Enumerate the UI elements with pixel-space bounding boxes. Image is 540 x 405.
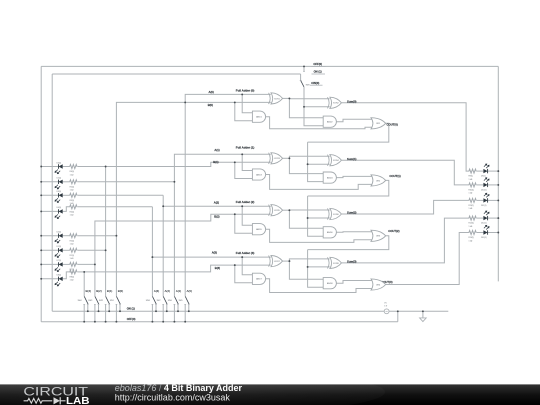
wire net A(2): bus up from SW7 to LED row corner; run right to Full Adder 2 [162, 195, 164, 296]
svg-text:AND3: AND3 [256, 173, 262, 176]
junction B(3) drop [234, 264, 236, 266]
and gate AND1 FA0 [252, 111, 265, 122]
svg-text:B(2): B(2) [96, 289, 102, 293]
LED D10 [483, 178, 489, 187]
svg-text:COUT(0): COUT(0) [387, 122, 398, 126]
wire indicator row D4/R4 from OFF rail [41, 207, 152, 212]
wire CIN(2) vertical to XOR6 and AND6 [308, 196, 324, 236]
junction XOR3 out [288, 157, 290, 159]
svg-text:1 kΩ: 1 kΩ [70, 174, 74, 176]
wire CIN(0) vertical to XOR2 and AND2 [304, 87, 323, 126]
wire AND3 output to OR2 [266, 175, 373, 190]
junction SW8 ON throw [155, 310, 157, 312]
svg-text:AND7: AND7 [256, 278, 262, 281]
wire output row R10/D10 [477, 184, 498, 186]
svg-text:1 kΩ: 1 kΩ [70, 258, 74, 260]
svg-text:SW8: SW8 [146, 300, 150, 302]
switch SW8 input A(3) [146, 289, 159, 322]
or gate OR1 FA0 [371, 118, 386, 129]
svg-text:R13(1): R13(1) [469, 237, 475, 239]
svg-text:XOR3: XOR3 [274, 158, 281, 160]
wire A(2) drop to AND [242, 206, 252, 225]
wire COUT(0) from OR1 to next CIN [308, 123, 389, 142]
svg-text:R4(1): R4(1) [70, 211, 75, 213]
ground [420, 311, 427, 321]
wire A(3) drop to AND [242, 257, 252, 275]
LED D3 [55, 193, 63, 202]
junction SW6 OFF throw [173, 321, 175, 323]
junction SW5 ON throw [188, 310, 190, 312]
junction B(0) row tap [115, 235, 117, 237]
svg-text:XOR5: XOR5 [274, 210, 281, 212]
svg-text:A(1): A(1) [176, 289, 182, 293]
wire Sum(2) from XOR6 to indicator [342, 200, 469, 214]
svg-text:SW6: SW6 [168, 300, 172, 302]
and gate AND7 FA3 [252, 273, 265, 284]
wire A(1) drop to AND [242, 154, 252, 170]
junction row D11 on right rail [497, 199, 499, 201]
and gate AND3 FA1 [252, 169, 265, 180]
or gate OR2 FA1 [371, 175, 386, 186]
junction row D1 on OFF rail [40, 249, 42, 251]
wire COUT(1) from OR2 to next CIN [308, 180, 389, 196]
LED D8 [55, 277, 63, 286]
wire CIN(1) vertical to XOR4 and AND4 [308, 142, 324, 182]
svg-text:R5(1): R5(1) [70, 240, 75, 242]
junction row D9 on right rail [497, 170, 499, 172]
svg-text:AND5: AND5 [256, 228, 262, 231]
svg-text:R9(1): R9(1) [469, 176, 474, 178]
junction SW7 OFF throw [162, 321, 164, 323]
and gate AND2 FA0 [323, 116, 336, 127]
junction CIN(3) to XOR8 [307, 266, 309, 268]
svg-text:ON (1): ON (1) [127, 307, 135, 311]
svg-text:SW4: SW4 [78, 300, 82, 302]
junction V1- / OFF riser [397, 310, 399, 312]
junction XOR7 out [288, 260, 290, 262]
switch SW6 input A(1) [168, 289, 181, 322]
LED D7 [55, 262, 63, 271]
wire net B(2): bus up from SW3, run right with jog to Full Adder 2 [95, 214, 271, 296]
resistor R13 1k [468, 231, 476, 235]
xor gate XOR5 FA2 [269, 205, 283, 216]
wire indicator row D2/R2 from OFF rail [41, 181, 174, 183]
wire Sum(3) from XOR8 to indicator [342, 218, 469, 263]
node OFF(0) top rail / left rail / bottom rail / right rail net [41, 66, 498, 321]
resistor R7 1k [69, 262, 77, 266]
junction SW1 OFF throw [115, 321, 117, 323]
junction row D5 on OFF rail [40, 235, 42, 237]
switch SW5 input A(0) [179, 289, 192, 322]
wire indicator row D5/R5 from OFF rail [41, 235, 116, 237]
resistor R8 1k [69, 270, 77, 274]
wire net B(0): bus up from SW1, corner, run right to Full Adder 0 [116, 102, 270, 296]
junction row D6 on OFF rail [40, 166, 42, 168]
xor gate XOR4 FA1 [328, 155, 342, 166]
wire AND4 output to OR2 [336, 176, 372, 177]
svg-text:AND1: AND1 [256, 116, 262, 119]
svg-text:R10(1): R10(1) [469, 190, 475, 192]
node ON(1) rail: top run, left inner rail, bottom run to V1 [52, 74, 384, 311]
xor gate XOR8 FA3 [328, 257, 342, 268]
xor gate XOR7 FA3 [269, 256, 283, 267]
junction row D8 on OFF rail [40, 278, 42, 280]
junction row D2 on OFF rail [40, 181, 42, 183]
LED D2 [55, 180, 63, 189]
svg-text:D7(1): D7(1) [57, 260, 62, 262]
junction SW7 ON throw [166, 310, 168, 312]
svg-text:B(1): B(1) [213, 160, 218, 164]
svg-text:AND8: AND8 [327, 282, 333, 285]
svg-text:D11(1): D11(1) [481, 205, 487, 207]
junction SW5 OFF throw [184, 321, 186, 323]
svg-text:D10(1): D10(1) [481, 190, 487, 192]
svg-text:AND4: AND4 [327, 177, 333, 180]
junction A(1) row tap [173, 181, 175, 183]
junction row D13 on right rail [497, 232, 499, 234]
junction XOR1 out [288, 97, 290, 99]
wire net B(3) run right with jog to Full Adder 3 [84, 265, 271, 272]
svg-text:AND6: AND6 [327, 231, 333, 234]
svg-text:1 kΩ: 1 kΩ [469, 240, 473, 242]
svg-text:COUT(2): COUT(2) [388, 229, 399, 233]
junction SW8 OFF throw [151, 321, 153, 323]
wire Sum(0) from XOR2 to indicator [342, 103, 469, 171]
svg-text:B(2): B(2) [214, 215, 219, 219]
junction XOR5 out [288, 209, 290, 211]
svg-text:Sum(2): Sum(2) [347, 211, 357, 215]
junction row D12 on right rail [497, 217, 499, 219]
wire CIN(3) vertical to XOR8 and AND8 [308, 250, 324, 288]
svg-text:D12(1): D12(1) [481, 223, 487, 225]
svg-text:A(2): A(2) [214, 200, 219, 204]
resistor R11 1k [468, 198, 476, 202]
xor gate XOR2 FA0 [328, 97, 342, 108]
svg-text:R3(1): R3(1) [70, 200, 75, 202]
junction SW6 ON throw [177, 310, 179, 312]
LED D6 [55, 164, 63, 173]
junction SW3 OFF throw [94, 321, 96, 323]
junction B(2) drop [234, 213, 236, 215]
svg-text:XOR1: XOR1 [274, 98, 281, 100]
svg-text:1 kΩ: 1 kΩ [70, 280, 74, 282]
wire B(3) drop to AND [235, 265, 253, 283]
xor gate XOR1 FA0 [269, 93, 283, 104]
svg-text:XOR4: XOR4 [333, 160, 340, 162]
switch SW1 input B(0) [110, 289, 123, 322]
wire AND5 output to OR3 [266, 229, 373, 242]
svg-text:CIN(0): CIN(0) [311, 81, 319, 85]
svg-text:D2(1): D2(1) [57, 178, 62, 180]
svg-text:D4(1): D4(1) [57, 207, 62, 209]
svg-text:OFF(0): OFF(0) [313, 62, 322, 66]
wire output row R11/D11 [477, 199, 498, 201]
svg-text:1 kΩ: 1 kΩ [70, 190, 74, 192]
svg-text:A(2): A(2) [165, 289, 171, 293]
LED D9 [483, 164, 489, 173]
switch SW3 input B(2) [88, 289, 101, 322]
svg-text:SW7: SW7 [157, 300, 161, 302]
svg-text:Sum(1): Sum(1) [347, 157, 357, 161]
wire output row R13/D13 [477, 232, 498, 234]
and gate AND8 FA3 [323, 278, 336, 289]
svg-text:R2(1): R2(1) [70, 186, 75, 188]
svg-text:R12(1): R12(1) [469, 223, 475, 225]
svg-text:A(3): A(3) [154, 289, 160, 293]
svg-text:SW9: SW9 [306, 85, 310, 87]
LED D5 [55, 234, 63, 243]
junction B(1) row tap [105, 249, 107, 251]
wire B(2) drop to AND [235, 214, 253, 233]
junction at A(0)/B(0) crossing [184, 101, 186, 103]
wire output row R9/D9 [477, 170, 498, 172]
junction SW2 OFF throw [105, 321, 107, 323]
xor gate XOR3 FA1 [269, 153, 283, 164]
svg-text:D8(1): D8(1) [57, 275, 62, 277]
wire indicator row D7/R7 from OFF rail [41, 263, 95, 265]
junction A(2) run tap [162, 205, 164, 207]
junction B(1) row tap top [105, 166, 107, 168]
junction row D4 on OFF rail [40, 210, 42, 212]
svg-text:Sum(3): Sum(3) [347, 260, 357, 264]
svg-text:XOR7: XOR7 [274, 261, 281, 263]
wire net A(1): bus up from SW6, corner, run right to Full Adder 1 [174, 154, 270, 296]
LED D12 [483, 211, 489, 220]
junction SW3 ON throw [98, 310, 100, 312]
voltage source V1 5V [384, 303, 389, 314]
svg-text:R1(1): R1(1) [70, 255, 75, 257]
svg-text:XOR2: XOR2 [333, 103, 340, 105]
wire net B(1): bus up from SW2 to LED row / run right with jog to Full Adder 1 [106, 162, 271, 296]
svg-text:D1(1): D1(1) [57, 246, 62, 248]
and gate AND4 FA1 [323, 172, 336, 183]
svg-text:B(0): B(0) [208, 103, 213, 107]
wire XOR3 output to XOR4 and AND4 [283, 157, 290, 159]
wire AND6 output to OR3 [336, 231, 372, 234]
wire XOR7 output to XOR8 and AND8 [283, 260, 290, 262]
LED D1 [55, 248, 63, 257]
svg-text:SW2: SW2 [99, 300, 103, 302]
wire net B(3): bus up from SW4 to indicator row [83, 272, 85, 296]
svg-text:OFF(0): OFF(0) [127, 317, 136, 321]
junction SW4 OFF throw [83, 321, 85, 323]
svg-text:D3(1): D3(1) [57, 191, 62, 193]
and gate AND5 FA2 [252, 224, 265, 235]
wire B(0) drop to AND [235, 102, 253, 120]
resistor R2 1k [69, 180, 77, 184]
svg-text:D6(1): D6(1) [57, 162, 62, 164]
wire AND8 output to OR4 [336, 281, 372, 284]
LED D13 [483, 225, 489, 234]
svg-text:1 kΩ: 1 kΩ [469, 226, 473, 228]
svg-text:ebolas176 / 4 Bit Binary Adder: ebolas176 / 4 Bit Binary Adder [115, 383, 243, 393]
svg-text:ON (1): ON (1) [314, 70, 322, 74]
wire net A(3): bus up from SW8 to LED row corner; run right to Full Adder 3 [151, 207, 153, 296]
switch SW2 input B(1) [99, 289, 112, 322]
resistor R9 1k [468, 169, 476, 173]
svg-text:R8(1): R8(1) [70, 277, 75, 279]
junction A(3) run tap [151, 256, 153, 258]
svg-text:XOR8: XOR8 [333, 263, 340, 265]
wire COUT(2) from OR3 to next CIN [308, 236, 389, 250]
svg-text:A(3): A(3) [212, 251, 217, 255]
svg-text:1 kΩ: 1 kΩ [469, 208, 473, 210]
junction A(3) drop [241, 256, 243, 258]
svg-text:Sum(0): Sum(0) [347, 99, 357, 103]
LED D11 [483, 193, 489, 202]
svg-text:XOR6: XOR6 [333, 214, 340, 216]
switch SW7 input A(2) [157, 289, 170, 322]
svg-text:B(1): B(1) [107, 289, 113, 293]
svg-text:1 kΩ: 1 kΩ [70, 215, 74, 217]
wire indicator row D1/R1 from OFF rail [41, 249, 105, 251]
svg-text:D13(1): D13(1) [481, 237, 487, 239]
resistor R12 1k [468, 216, 476, 220]
resistor R3 1k [69, 193, 77, 197]
junction ground tap [422, 310, 424, 312]
junction B(3) row tap [83, 271, 85, 273]
svg-text:A(1): A(1) [214, 148, 219, 152]
svg-text:A(0): A(0) [209, 90, 214, 94]
wire COUT(3) from OR4 to indicator [386, 233, 469, 285]
switch SW4 input B(3) [78, 289, 91, 322]
svg-text:Full Adder (2): Full Adder (2) [236, 200, 255, 204]
wire V1 right to ground run [389, 310, 448, 312]
svg-text:R6(1): R6(1) [70, 171, 75, 173]
wire AND7 output to OR4 [266, 279, 373, 293]
or gate OR3 FA2 [371, 230, 386, 241]
resistor R1 1k [69, 248, 77, 252]
xor gate XOR6 FA2 [328, 208, 342, 219]
svg-text:B(0): B(0) [118, 289, 124, 293]
svg-text:B(3): B(3) [86, 289, 92, 293]
wire indicator row D8/R8 from OFF rail [41, 272, 84, 279]
wire net A(0): bus up from SW5, corner, run right to Full Adder 0 [185, 94, 271, 296]
svg-text:1 kΩ: 1 kΩ [70, 244, 74, 246]
junction SW9 OFF throw on top rail [303, 65, 305, 67]
svg-text:1 kΩ: 1 kΩ [469, 179, 473, 181]
junction A(1) drop [241, 153, 243, 155]
svg-text:SW3: SW3 [88, 300, 92, 302]
svg-text:COUT(1): COUT(1) [389, 174, 400, 178]
svg-text:B(3): B(3) [215, 266, 220, 270]
svg-text:SW5: SW5 [179, 300, 183, 302]
wire output row R12/D12 [477, 217, 498, 219]
svg-text:V1: V1 [384, 303, 386, 305]
wire AND2 output to OR1 [336, 119, 372, 121]
switch SW9 CIN(0) select [300, 66, 310, 87]
junction B(0) drop [234, 101, 236, 103]
junction A(2) drop [241, 205, 243, 207]
svg-text:SW1: SW1 [110, 300, 114, 302]
junction SW2 ON throw [108, 310, 110, 312]
junction B(1) drop [234, 161, 236, 163]
wire B(1) drop to AND [235, 162, 253, 178]
or gate OR4 FA3 [371, 279, 386, 290]
wire indicator row D3/R3 from OFF rail [41, 194, 163, 196]
resistor R10 1k [468, 183, 476, 187]
junction row D7 on OFF rail [40, 263, 42, 265]
junction row D3 on OFF rail [40, 194, 42, 196]
wire AND1 output to OR1 [266, 117, 373, 129]
svg-text:A(0): A(0) [187, 289, 193, 293]
wire XOR1 output to XOR2 and AND2 [283, 97, 290, 99]
resistor R6 1k [69, 165, 77, 169]
svg-text:R11(1): R11(1) [469, 205, 475, 207]
svg-text:LAB: LAB [66, 396, 90, 405]
svg-text:AND2: AND2 [327, 121, 333, 124]
wire XOR5 output to XOR6 and AND6 [283, 209, 290, 211]
junction CIN(1) to XOR4 [307, 163, 309, 165]
wire Sum(1) from XOR4 to indicator [342, 160, 469, 185]
junction CIN(2) to XOR6 [307, 217, 309, 219]
junction SW1 ON throw [119, 310, 121, 312]
svg-text:D9(1): D9(1) [481, 176, 486, 178]
logo resistor squiggle + diode [24, 397, 66, 404]
LED D4 [55, 209, 63, 218]
resistor R5 1k [69, 234, 77, 238]
svg-text:Full Adder (1): Full Adder (1) [236, 146, 255, 150]
svg-text:Full Adder (0): Full Adder (0) [236, 88, 255, 92]
svg-text:D5(1): D5(1) [57, 232, 62, 234]
and gate AND6 FA2 [323, 227, 336, 238]
svg-text:Full Adder (3): Full Adder (3) [236, 251, 255, 255]
junction B(2) row tap [94, 263, 96, 265]
svg-text:http://circuitlab.com/cw3usak: http://circuitlab.com/cw3usak [115, 392, 231, 402]
wire A(0) drop to AND [242, 94, 252, 112]
junction CIN(0) to XOR2 [303, 106, 305, 108]
junction SW4 ON throw [87, 310, 89, 312]
junction A(0) drop [241, 93, 243, 95]
svg-text:1 kΩ: 1 kΩ [469, 193, 473, 195]
resistor R4 1k [69, 205, 77, 209]
wire indicator row D6/R6 from OFF rail [41, 166, 105, 168]
junction row D10 on right rail [497, 184, 499, 186]
